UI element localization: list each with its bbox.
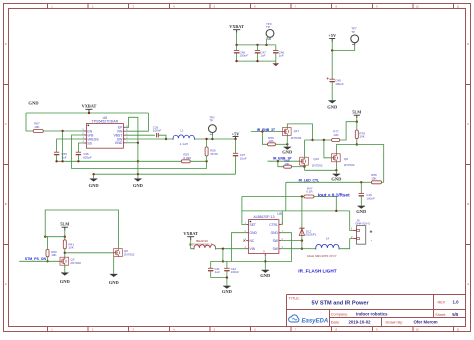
svg-text:1uF: 1uF [215,270,220,274]
wire VBST to C26 [126,134,155,136]
wire L4 to pin2 [339,239,353,249]
capacitor C45 [76,152,92,159]
svg-text:820pF: 820pF [83,156,92,160]
wire EP loop [126,117,138,143]
svg-text:Indoor robotics: Indoor robotics [356,312,388,317]
svg-text:TP: TP [266,25,270,29]
wire C45 to rail1 [77,155,79,162]
wire caps bottom rail (driver) [211,277,227,279]
junction GND pin [137,142,139,144]
resistor R29 [181,153,191,163]
net flag VXBAT (top) [229,24,244,33]
resistor R78 [355,130,365,139]
svg-text:AL8862SP-13: AL8862SP-13 [253,215,274,219]
ferrite bead BEAD19 [189,239,216,249]
U8 designator [103,116,108,120]
svg-text:Company:: Company: [331,313,348,317]
junction S4-R47 [335,210,337,212]
svg-text:STM_PS_ON: STM_PS_ON [25,257,47,261]
net flag 5LM (right) [352,110,361,118]
wire R78 to R59 [357,145,384,183]
svg-text:GND: GND [133,183,144,188]
svg-text:TP: TP [209,119,213,123]
transistor Q3 [60,257,81,265]
capacitor C49 [327,77,344,86]
svg-text:NC: NC [250,239,255,243]
junction R56-source [286,143,288,145]
junction gate3T-R56 [261,130,263,132]
floating GND text [28,101,39,106]
wire FB return [206,161,208,168]
junction top rail C48 [235,44,237,46]
wire R78 bottom [356,139,358,145]
junction 5LM left node [64,236,66,238]
svg-text:+5V: +5V [328,33,337,38]
svg-text:CTRL: CTRL [269,223,278,227]
wire GND drop to rails [137,143,139,179]
svg-text:VXBAT: VXBAT [183,231,198,236]
capacitor C42 [224,261,239,277]
resistor R26 [205,147,218,156]
junction +5V node [234,138,236,140]
transistor Q16 [300,157,323,168]
U8 part number [92,120,119,124]
svg-text:36.5K: 36.5K [210,152,218,156]
svg-text:2019-10-02: 2019-10-02 [349,320,372,325]
op-amp U9 AL8862SP body [243,220,283,257]
title block Date [331,320,371,325]
junction GND rail1 [137,160,139,162]
ground below U9 [260,270,271,278]
junction +5V TP1 node [331,49,333,51]
wire vFB line [72,135,207,169]
svg-text:Q17: Q17 [294,129,300,133]
svg-text:Iout = 0.1/Rset: Iout = 0.1/Rset [318,192,350,197]
svg-text:10K: 10K [34,125,39,129]
svg-text:IR_FLASH LIGHT: IR_FLASH LIGHT [298,269,336,274]
wire R29 to FB node [190,160,206,162]
wire D12 bottom [301,235,303,248]
junction R78 bottom [356,143,358,145]
svg-text:BKP1000HS061 T: BKP1000HS061 T [189,243,213,247]
net flag 5LM (left) [60,222,69,231]
svg-text:GND: GND [327,105,338,110]
junction Q17drain-line [311,139,313,141]
wire C40 drop [360,182,362,193]
junction VXBAT rail [88,112,90,114]
net flag +5V (buck out) [232,131,241,139]
svg-text:5LM: 5LM [352,110,361,115]
junction C26-SW [165,138,167,140]
wire SW6 line [281,240,302,242]
svg-text:GND: GND [109,280,120,285]
capacitor C47 [255,45,266,61]
net label IR_LED_CTL [299,179,320,183]
svg-text:VXBAT: VXBAT [229,24,244,29]
svg-text:+5V: +5V [232,131,241,136]
wire riser to R60 [45,237,47,250]
wire 5LM stem [356,118,358,122]
wire Q17 source [286,136,288,147]
ground below C40 [356,206,367,214]
wire Q16 source [304,165,306,170]
svg-text:5/5: 5/5 [452,312,459,317]
svg-text:TITLE:: TITLE: [289,296,300,300]
resistor R47 [304,187,314,199]
junction R67-EN node [61,130,63,132]
svg-text:10uH SRC1076 4YCY: 10uH SRC1076 4YCY [307,254,337,258]
svg-text:10K: 10K [68,246,73,250]
net flag VXBAT (driver) [183,231,198,240]
svg-text:SS: SS [87,141,92,145]
svg-text:6.49K: 6.49K [183,156,191,160]
wire C26 to SW line [158,135,166,139]
svg-text:100uF: 100uF [335,82,344,86]
U9 designator [277,212,281,216]
svg-text:5LM: 5LM [60,222,69,227]
svg-text:2N7002: 2N7002 [312,164,323,168]
wire sources to GND [305,169,337,171]
wire R47 right [314,197,336,211]
inductor L4 [307,237,339,259]
svg-text:10K: 10K [284,162,289,166]
junction L1-R26 [205,138,207,140]
resistor R67 [33,121,43,132]
test point TP7 [351,27,359,46]
net label IR_ENB_3T [257,128,276,132]
title block TITLE label [289,296,300,300]
svg-text:1.1uH: 1.1uH [180,142,188,146]
wire GND pin stub [126,142,138,144]
wire Q8 gate [324,140,332,158]
wire rail1 [57,160,182,162]
junction R55-source [303,166,305,168]
annotation Iout [318,192,350,197]
junction caps top [222,260,224,262]
wire R55 to source [292,166,305,168]
wire U9 GND2 loop [232,233,247,262]
wire to TP1 [332,43,355,51]
wire STM_PS_ON [19,260,60,262]
wire VXBAT left drop to R67 [26,113,33,131]
title block Sheet [435,312,459,317]
wire SET line [242,196,304,198]
wire U9 GND7 loop [265,233,291,262]
wire vREGS to C56 [57,139,85,152]
wire Q3 source [64,265,66,272]
svg-text:10K: 10K [359,135,364,139]
svg-text:10K: 10K [268,139,273,143]
title block REV [438,299,460,304]
transistor Q8 [332,154,355,167]
junction rail1 C56 [55,160,57,162]
svg-text:TPS54527DDAR: TPS54527DDAR [92,120,119,124]
svg-text:Drawn By:: Drawn By: [386,321,404,325]
wire U9 gnd drop [264,261,266,269]
wire EP down [264,256,266,261]
wire C49 to GND [331,82,333,101]
wire VXBAT to bead [191,240,194,249]
op-amp U8 TPS54527DDAR body [82,124,128,149]
net flag VXBAT (buck) [82,104,97,113]
ground below U8 (right) [133,179,144,188]
svg-text:5V STM and IR Power: 5V STM and IR Power [312,301,370,307]
wire SW5 line [281,248,302,250]
svg-text:Date:: Date: [331,321,340,325]
wire caps riser [222,249,224,262]
wire C37 to rail2 [235,156,237,175]
junction U9 gnd [264,260,266,262]
capacitor C56 [54,152,67,159]
wire R60 bottom [47,257,49,262]
title block DrawnBy [386,320,438,325]
wire IR_ENB_3T [251,131,283,133]
wire rail2 gnd [94,173,236,175]
svg-text:IR_LED_CTL: IR_LED_CTL [299,179,320,183]
svg-text:GND: GND [250,231,258,235]
capacitor C37 [233,153,247,160]
svg-text:100nF: 100nF [231,270,240,274]
junction R41 bottom [64,252,66,254]
svg-text:GND: GND [28,101,39,106]
svg-text:GND: GND [282,150,293,155]
svg-text:GND: GND [115,141,123,145]
wire R41 bottom [64,249,66,257]
transistor Q6 [114,249,135,257]
wire +5V stem [331,42,333,51]
ground triangle top caps [273,61,280,66]
wire drain line to R77 [305,139,332,141]
junction bottom rail C48 [235,60,237,62]
wire R26 bottom [206,156,208,161]
svg-text:0.1R: 0.1R [306,190,313,194]
junction VIN-caps [222,248,224,250]
inductor L1 [173,129,194,147]
svg-text:+: + [369,229,372,235]
wire +5V down to C37 [235,139,237,153]
wire EN node down to rail1 [62,131,64,161]
svg-text:TP: TP [351,30,355,34]
net label IR_ENB_1P [273,156,292,160]
junction SW6 node [301,239,303,241]
wire VXBAT right drop to VIN [126,113,149,131]
svg-text:100nF: 100nF [366,196,375,200]
wire R55 drop [278,161,284,167]
svg-text:Sheet:: Sheet: [435,313,446,317]
resistor R56 [268,136,276,146]
junction 5LM node [356,121,358,123]
junction CTRL-C40 [360,181,362,183]
wire Q17 drain loop [287,124,312,140]
svg-text:Q16: Q16 [313,157,319,161]
wire Q6 source [113,257,115,274]
net label STM_PS_ON [25,257,47,261]
U9 part number [253,215,274,219]
svg-text:GND: GND [331,177,342,182]
svg-text:1uF: 1uF [260,54,265,58]
svg-text:10uF: 10uF [240,157,247,161]
wire D12 top [301,197,303,229]
svg-text:SW: SW [273,239,279,243]
wire S4 to pin1 [350,211,353,231]
transistor Q17 [283,128,302,141]
svg-text:L1: L1 [180,129,184,133]
ground below Q6 [109,274,120,285]
svg-text:C: C [5,122,7,126]
svg-text:10K: 10K [371,176,376,180]
svg-text:2N7002: 2N7002 [70,261,81,265]
capacitor C48 [234,45,248,61]
capacitor C46 [273,45,284,61]
svg-text:GND: GND [222,289,233,294]
junction top rail C47 [256,44,258,46]
wire Q16 drain [304,140,306,157]
wire C40 to gnd [360,196,362,206]
wire Q8 source gnd drop [335,170,337,173]
wire S4 line [242,210,350,212]
wire CTRL drop to S4 [285,182,287,211]
wire VXBAT stem [236,32,238,45]
wire SW to L1 [126,138,173,140]
resistor R55 [284,159,292,168]
svg-text:GND: GND [89,183,100,188]
wire SET left drop [242,197,246,225]
svg-text:GND: GND [260,273,271,278]
wire gnd drop left [93,174,95,178]
svg-text:1uF: 1uF [61,156,66,160]
svg-text:VIN: VIN [250,247,256,251]
junction caps bottom [226,276,228,278]
svg-text:100uF: 100uF [239,54,248,58]
wire caps top rail [237,44,276,46]
wire R67 to EN [43,130,84,132]
svg-text:GND: GND [356,209,367,214]
svg-text:100nF: 100nF [153,129,162,133]
wire IR_ENB_1P [268,160,300,162]
capacitor C26 [153,125,162,137]
svg-text:10K: 10K [333,133,338,137]
svg-text:1uF: 1uF [279,54,284,58]
net flag +5V (top right) [328,33,337,42]
ground below caps [222,286,233,294]
resistor R60 [46,249,57,257]
junction rail2 left [92,173,94,175]
title block Company [331,312,388,317]
junction TP2 node [211,138,213,140]
svg-text:SS26PL: SS26PL [305,233,316,237]
wire Q6 drain route [45,210,118,248]
svg-text:VXBAT: VXBAT [82,104,97,109]
ground below Q3 [60,273,71,284]
svg-text:SW: SW [273,247,279,251]
wire C56 to rail1 [56,155,58,162]
wire CTRL to R59 [361,181,371,183]
wire R26 top [206,139,208,147]
junction top rail TP3 [265,44,267,46]
svg-text:B: B [467,202,469,206]
wire SW5 to L4 [302,248,316,250]
diode D12 SS26PL [299,228,316,236]
wire 5LM stem (left) [64,230,66,240]
wire SS to C45 [78,143,84,152]
wire caps bottom rail [237,60,276,62]
wire bead to VIN [216,248,247,250]
resistor R77 [332,130,340,142]
svg-text:GND: GND [271,231,279,235]
svg-text:U9: U9 [277,212,281,216]
junction gate1P-R55 [277,160,279,162]
svg-text:A: A [467,282,469,286]
junction R60 bottom [46,260,48,262]
svg-text:D: D [5,42,7,46]
svg-text:GND: GND [60,279,71,284]
wire CTRL riser [281,211,282,225]
ground below C49 [327,101,338,110]
resistor R41 [63,240,74,250]
test point TP3 [266,22,274,45]
wire +5V to C49 [331,51,333,80]
test point TP2 [209,115,217,139]
junction SW5 node [301,248,303,250]
wire R56 to source [276,143,288,145]
wire Q8 source [335,162,337,171]
svg-text:C: C [467,122,469,126]
title block title text [312,301,370,307]
svg-text:SET: SET [250,223,256,227]
capacitor C40 [359,193,375,200]
connector J6 GHR-02V-S [351,218,373,244]
svg-text:D: D [467,42,469,46]
svg-text:Ofer Merom: Ofer Merom [414,320,438,325]
junction GND rail2 [137,173,139,175]
svg-text:2N7002: 2N7002 [124,253,135,257]
svg-text:EasyEDA: EasyEDA [302,319,329,325]
junction Q8 source [335,169,337,171]
wire L1 to +5V [194,138,235,140]
junction left riser [44,236,46,238]
wire caps top rail (driver) [211,260,266,262]
svg-text:2N7002: 2N7002 [344,163,355,167]
wire VXBAT top rail [26,112,148,114]
svg-text:Q8: Q8 [344,157,348,161]
junction rail1 C45 [77,160,79,162]
junction Q8 gate node [323,139,325,141]
wire R78 to Q8 drain [336,145,356,154]
junction SET-D12 [301,195,303,197]
ground below U8 (left) [89,179,100,188]
capacitor C41 [208,261,220,277]
svg-text:1.0: 1.0 [453,299,460,304]
junction rail1 EN-drop [61,160,63,162]
svg-text:GHR-02V-S: GHR-02V-S [355,221,370,225]
junction FB node [205,160,207,162]
title block grid [287,295,466,327]
wire R78 top [356,122,358,130]
svg-text:2N7002: 2N7002 [291,136,302,140]
wire R56 drop [262,132,267,145]
ground below Q17 [282,147,293,155]
resistor R59 [371,173,381,184]
wire 5LM to R77 [340,122,357,140]
svg-text:L4: L4 [326,237,330,241]
svg-text:B: B [5,202,7,206]
wire R41node to Q6 gate [65,252,114,254]
svg-text:10K: 10K [51,253,56,257]
svg-text:REV: REV [438,300,446,304]
junction bottom rail C47 [256,60,258,62]
wire CTRL line [286,181,362,183]
svg-text:A: A [5,282,7,286]
